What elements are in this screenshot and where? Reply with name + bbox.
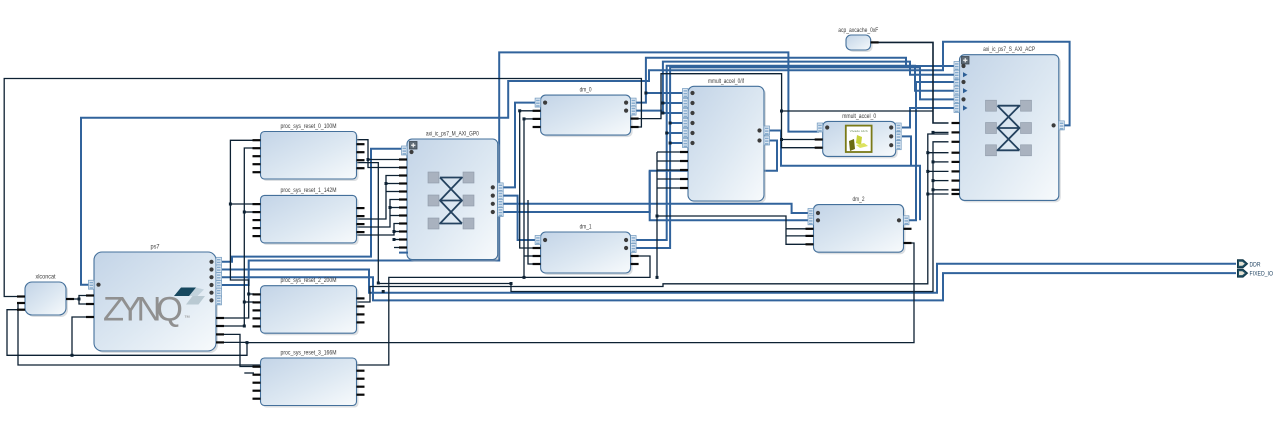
- wire DDR: [222, 264, 1236, 293]
- wire ps7 pin3 to bottom net: [72, 317, 88, 355]
- svg-text:proc_sys_reset_3_166M: proc_sys_reset_3_166M: [281, 350, 337, 357]
- svg-text:mmult_accel_0: mmult_accel_0: [842, 113, 876, 120]
- wire dm_2 scalar feeds: [657, 216, 808, 244]
- wire ACP M00 loop to ps7 S_AXI_ACP: [81, 42, 1070, 285]
- wire dm_0 out2 to ACP S01: [636, 62, 954, 111]
- wire xlconcat dout to ps7 IRQ: [66, 296, 88, 300]
- block ps7: [94, 244, 218, 354]
- wire reset net: [222, 148, 254, 326]
- wire dm_0 irq loop to xlconcat: [4, 79, 641, 297]
- wire mmult_accel out to ACP: [902, 108, 954, 128]
- svg-text:dm_1: dm_1: [580, 224, 592, 231]
- block proc_sys_reset_2: [261, 277, 359, 335]
- block acp_axcache_0xF: [838, 27, 878, 52]
- block proc_sys_reset_1: [261, 187, 359, 245]
- junction dots: [229, 203, 232, 206]
- wire ps7 M_AXI_GP0 to interconnect S00: [222, 149, 404, 262]
- svg-text:axi_ic_ps7_S_AXI_ACP: axi_ic_ps7_S_AXI_ACP: [983, 46, 1035, 53]
- wire if scalar feeds: [656, 152, 658, 277]
- wire fclk2 to proc_sys_reset_3: [222, 334, 254, 366]
- acp_axcache output pin: [871, 41, 879, 43]
- GP0 bottom-left interface stub: [399, 252, 408, 254]
- wire dm_1 out1 to ACP S02: [636, 66, 954, 240]
- wire interconnect M01 to dm_1 s_axi: [502, 196, 535, 240]
- proc_sys_reset_0 pins: [253, 139, 365, 173]
- block xlconcat: [25, 274, 68, 318]
- svg-text:dm_2: dm_2: [853, 196, 865, 203]
- wire mmult scalar net: [782, 110, 934, 112]
- ACP interconnect icon: [986, 100, 1032, 156]
- svg-text:proc_sys_reset_2_200M: proc_sys_reset_2_200M: [281, 277, 337, 284]
- proc_sys_reset_1 pins: [253, 203, 365, 237]
- port FIXED_IO: [1238, 269, 1273, 278]
- GP0 interconnect icon: [428, 172, 474, 229]
- wire dm_0 scalar feeds: [520, 110, 537, 112]
- wire FIXED_IO: [222, 273, 1236, 300]
- block proc_sys_reset_3: [261, 350, 359, 408]
- ps7 left scalar pins: [86, 294, 94, 318]
- ZYNQ logo: [103, 288, 205, 329]
- wire interconnect M00 to dm_0 s_axi: [502, 103, 535, 188]
- wire interconnect M02 to dm_2 s_axi: [502, 204, 808, 213]
- wire if out1 wrap: [769, 131, 920, 221]
- svg-text:Vivado HLS: Vivado HLS: [850, 129, 868, 133]
- GP0 S00_AXI pin: [402, 146, 414, 155]
- wire dm_0 status to mmult scalar: [638, 74, 782, 119]
- dm_1 pins: [533, 236, 639, 266]
- svg-text:ps7: ps7: [151, 244, 160, 251]
- xlconcat pins: [17, 295, 74, 310]
- wire dm_0 out1 to ACP S00: [636, 58, 954, 103]
- wire mmult_accel out2: [902, 136, 911, 165]
- proc_sys_reset_2 pins: [253, 293, 365, 327]
- wire dm_2 out to ACP S04: [908, 82, 954, 220]
- port DDR: [1238, 260, 1261, 269]
- block axi_ic_ps7_M_AXI_GP0: [407, 131, 500, 262]
- block dm_1: [541, 224, 633, 276]
- svg-text:FIXED_IO: FIXED_IO: [1250, 271, 1273, 278]
- HLS icon: [846, 126, 872, 152]
- block dm_2: [814, 196, 906, 254]
- block mmult_accel_0_if: [688, 78, 766, 203]
- wire fclk3: [222, 341, 247, 343]
- wire reset net to ACP odd pins: [356, 142, 949, 292]
- ACP left scalar pins: [952, 122, 960, 195]
- ACP expand icon: [962, 57, 970, 65]
- ps7 right interface pins: [209, 257, 221, 305]
- svg-text:xlconcat: xlconcat: [36, 274, 56, 281]
- wire dm_2 irq bottom loop to xlconcat: [7, 243, 914, 355]
- if right pins: [757, 126, 769, 145]
- wire if input feeds: [646, 92, 685, 94]
- block mmult_accel_0: [823, 113, 898, 158]
- if left interface pins: [683, 89, 695, 148]
- wire GP0 to mmult_accel s_axi control: [222, 52, 819, 285]
- GP0 master pins: [491, 183, 504, 217]
- GP0 left scalar pins: [399, 158, 407, 248]
- wire fclk0 clock net: [222, 140, 254, 318]
- svg-text:proc_sys_reset_0_100M: proc_sys_reset_0_100M: [281, 123, 337, 130]
- dm_2 pins: [806, 209, 912, 246]
- block axi_ic_ps7_S_AXI_ACP: [960, 46, 1061, 202]
- ACP slave interface pins: [954, 62, 968, 113]
- block proc_sys_reset_0: [261, 123, 359, 181]
- svg-text:axi_ic_ps7_M_AXI_GP0: axi_ic_ps7_M_AXI_GP0: [426, 131, 479, 138]
- svg-text:acp_axcache_0xF: acp_axcache_0xF: [838, 27, 878, 34]
- svg-text:dm_0: dm_0: [580, 87, 592, 94]
- wire dm_1 irq loop to xlconcat: [18, 256, 650, 365]
- GP0 expand icon: [410, 142, 418, 150]
- svg-text:DDR: DDR: [1250, 261, 1261, 268]
- wire proc1 outs to GP0 pins: [356, 176, 400, 220]
- wire proc0 resets to GP0 interconnect: [356, 140, 400, 168]
- ACP M00 pin: [1052, 121, 1065, 130]
- svg-text:ZYNQ: ZYNQ: [103, 291, 183, 329]
- svg-text:™: ™: [184, 315, 190, 322]
- ps7 right scalar pins: [216, 317, 224, 344]
- wire if out2 wrap to dm_2: [650, 141, 808, 221]
- svg-text:proc_sys_reset_1_142M: proc_sys_reset_1_142M: [281, 187, 337, 194]
- wire clock net stepped to ACP even pins: [356, 134, 949, 302]
- dm_0 pins: [533, 98, 639, 128]
- wire dm_1 out2 to ACP S03: [636, 67, 954, 248]
- ps7 S_AXI_ACP input pin: [89, 280, 101, 289]
- block dm_0: [541, 87, 633, 138]
- wire interconnect M03: [502, 171, 650, 212]
- if left scalar pins: [680, 151, 688, 189]
- svg-text:mmult_accel_0/if: mmult_accel_0/if: [708, 78, 744, 85]
- wire acp_axcache constant: [871, 42, 949, 123]
- proc_sys_reset_3 pins: [253, 366, 365, 400]
- mmult_accel_0 pins: [815, 123, 902, 150]
